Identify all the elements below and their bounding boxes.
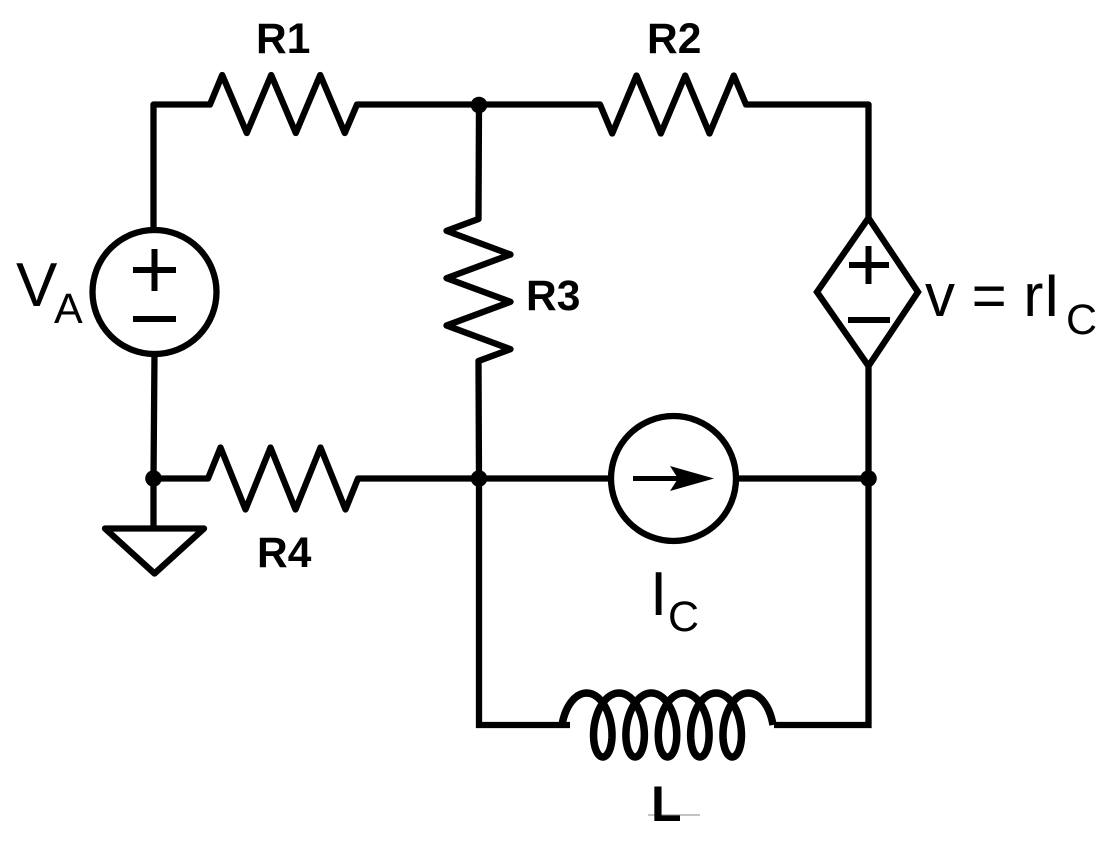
svg-text:R2: R2	[647, 16, 701, 63]
svg-text:C: C	[1066, 296, 1097, 344]
svg-text:R3: R3	[526, 273, 580, 320]
svg-text:I: I	[650, 560, 667, 629]
svg-text:C: C	[668, 593, 699, 641]
svg-text:A: A	[54, 285, 83, 333]
svg-text:R1: R1	[256, 16, 310, 63]
svg-text:v = rI: v = rI	[925, 262, 1060, 329]
svg-text:R4: R4	[257, 530, 312, 577]
svg-text:V: V	[16, 251, 58, 320]
svg-text:L: L	[651, 776, 682, 832]
